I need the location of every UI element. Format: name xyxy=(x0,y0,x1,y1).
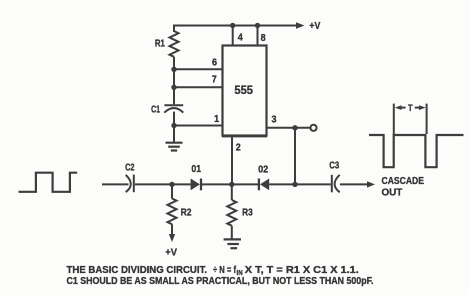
wire to pin 7 xyxy=(174,86,223,88)
wire C1 to node xyxy=(173,112,175,126)
svg-text:R2: R2 xyxy=(181,207,192,219)
svg-text:6: 6 xyxy=(212,57,217,68)
wire R1 to node xyxy=(173,57,175,70)
wire node to ground xyxy=(173,126,175,143)
svg-text:R3: R3 xyxy=(242,207,253,219)
node junction D2/branch/C3 xyxy=(292,182,297,187)
svg-text:OUT: OUT xyxy=(382,187,403,199)
node junction pin7/C1 xyxy=(171,85,176,90)
svg-text:2: 2 xyxy=(236,142,241,153)
wire to pin 6 xyxy=(174,68,223,70)
svg-text:CASCADE: CASCADE xyxy=(382,175,425,187)
wire node to node xyxy=(173,69,175,87)
node junction D1/pin2/R3/D2 xyxy=(229,182,234,187)
svg-text:3: 3 xyxy=(272,114,277,125)
svg-text:T: T xyxy=(408,103,413,114)
resistor R2 xyxy=(168,184,177,235)
node junction pin4/rail xyxy=(230,23,235,28)
svg-text:8: 8 xyxy=(261,33,266,44)
wire +V supply rail xyxy=(174,26,296,33)
wire to pin 1 xyxy=(174,125,223,127)
wire pin 3 output xyxy=(267,127,311,129)
output waveform symbol xyxy=(369,135,464,167)
svg-text:555: 555 xyxy=(234,83,253,97)
resistor R1 xyxy=(170,31,179,57)
wire node to C3 xyxy=(295,183,331,185)
svg-text:C1: C1 xyxy=(151,103,160,115)
svg-text:C2: C2 xyxy=(125,161,135,173)
svg-text:02: 02 xyxy=(258,164,268,176)
wire C3 to cascade out xyxy=(340,183,368,185)
svg-text:÷ N = f: ÷ N = f xyxy=(213,265,237,276)
dimension marker T xyxy=(394,104,427,134)
svg-text:C1 SHOULD BE AS SMALL AS PRACT: C1 SHOULD BE AS SMALL AS PRACTICAL, BUT … xyxy=(67,276,374,287)
wire C2 to node xyxy=(135,183,172,185)
wire pin 2 xyxy=(231,136,233,185)
capacitor C2 xyxy=(126,175,134,193)
svg-text:01: 01 xyxy=(191,163,201,175)
capacitor C3 xyxy=(332,175,340,193)
+V arrow head xyxy=(296,22,305,29)
svg-text:4: 4 xyxy=(238,33,243,44)
input waveform symbol xyxy=(19,173,78,192)
node junction C2/R2/D1 xyxy=(169,182,174,187)
ground (R3) xyxy=(224,239,241,248)
svg-text:+V: +V xyxy=(165,247,177,259)
svg-text:THE BASIC DIVIDING CIRCUIT.: THE BASIC DIVIDING CIRCUIT. xyxy=(67,265,208,276)
op-amp U1 555 timer IC xyxy=(223,46,267,136)
node junction C1/pin1 xyxy=(171,123,176,128)
diode D2 xyxy=(232,179,295,191)
wire branch down xyxy=(294,128,296,185)
resistor R3 xyxy=(227,184,236,239)
diode D1 xyxy=(172,179,232,191)
+V arrow (R2 return) xyxy=(169,234,175,242)
node junction pin8/rail xyxy=(255,23,260,28)
svg-text:7: 7 xyxy=(212,74,217,85)
node junction pin3/branch xyxy=(292,125,297,130)
svg-text:1: 1 xyxy=(214,114,219,125)
wire pin 8 xyxy=(257,26,259,47)
svg-text:+V: +V xyxy=(309,20,320,32)
output terminal open circle xyxy=(310,125,316,131)
cascade out arrow head xyxy=(367,181,375,187)
svg-text:C3: C3 xyxy=(329,159,339,171)
wire input xyxy=(102,183,129,185)
svg-text:R1: R1 xyxy=(155,38,165,50)
svg-text:X T, T = R1 X C1 X 1.1.: X T, T = R1 X C1 X 1.1. xyxy=(245,265,359,276)
capacitor C1 xyxy=(164,105,183,112)
node junction R1/pin6 xyxy=(171,67,176,72)
wire pin 4 xyxy=(232,26,234,47)
ground (C1) xyxy=(166,143,183,151)
wire node to C1 xyxy=(173,87,175,104)
